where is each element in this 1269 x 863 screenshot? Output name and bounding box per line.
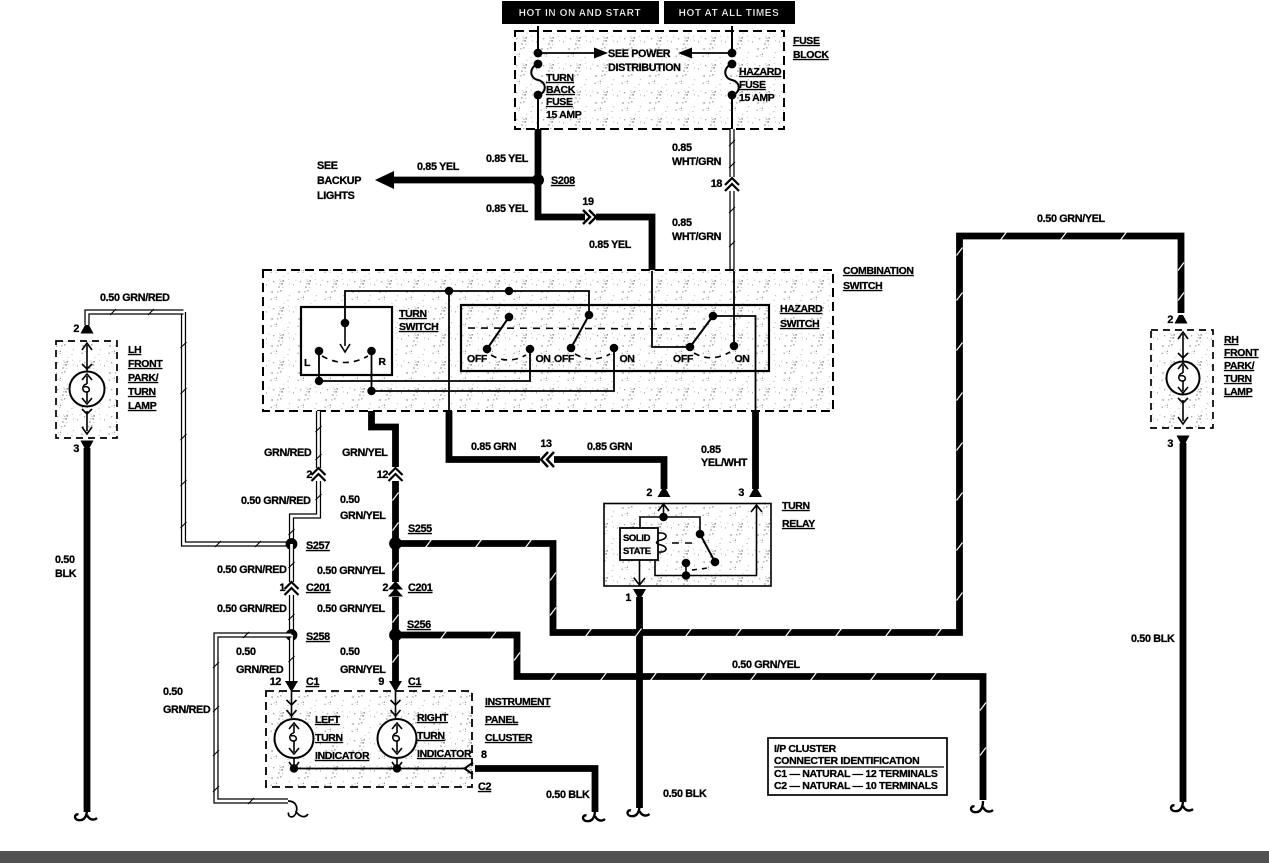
svg-text:9: 9 [378,676,384,688]
label HAZARD SWITCH [780,303,823,330]
wire 0.50 GRN/RED connector 2 to S257 (hollow) [289,481,322,544]
wire 0.85 YEL connector 19 to combination switch [596,217,652,271]
label L [304,357,311,369]
arrow into cluster GRN/YEL [389,681,402,692]
hazard mechanical dashed link [468,328,700,329]
svg-text:C2 — NATURAL — 10 TERMINALS: C2 — NATURAL — 10 TERMINALS [774,780,938,792]
wire end hook relay ground [628,805,650,816]
wire 0.85 YEL to pole3 OFF inside switch [652,271,690,347]
svg-text:12: 12 [270,676,282,688]
svg-text:0.50 GRN/RED: 0.50 GRN/RED [241,495,311,507]
node on right fuse wire (top) [728,49,737,58]
label 0.50 GRN/YEL (above C201) [317,565,386,577]
svg-text:FRONT: FRONT [128,358,163,370]
label LH FRONT PARK TURN LAMP [128,344,163,412]
svg-text:WHT/GRN: WHT/GRN [672,231,722,243]
svg-text:3: 3 [738,487,744,499]
svg-text:INDICATOR: INDICATOR [417,748,472,760]
relay fixed contact [682,559,691,580]
label C201 (GRN/RED) [306,582,331,594]
wire turn switch L to pole1 ON [319,349,530,381]
wire 0.50 GRN/RED S257 to connector C201 (hollow) [289,544,295,582]
svg-text:YEL/WHT: YEL/WHT [701,457,748,469]
connector 19 chevrons [583,210,596,224]
turn switch contact L [315,347,324,356]
wire below hazard fuse inside box [731,95,733,129]
svg-text:13: 13 [540,438,552,450]
svg-text:SEE POWER: SEE POWER [608,48,671,60]
left turn indicator bulb [275,691,314,769]
wire end hook LH ground [75,809,97,820]
svg-text:19: 19 [582,196,594,208]
hazard pole 2 [567,311,619,359]
svg-text:2: 2 [306,469,312,481]
node on right fuse wire (second) [728,60,737,69]
svg-text:0.85 YEL: 0.85 YEL [486,153,529,165]
svg-text:LH: LH [128,344,141,356]
wire 0.85 GRN switch output to connector 13 [449,411,540,460]
label 3 (LH lamp) [73,443,79,455]
terminal flare RH lamp pin 3 [1177,436,1190,445]
right turn indicator bulb [378,691,417,769]
label HAZARD FUSE 15 AMP [739,66,782,104]
wire 0.50 BLK RH lamp to ground [1180,443,1187,802]
LH lamp bulb [70,343,105,434]
label pin 2 turn relay [646,487,652,499]
svg-text:OFF: OFF [673,353,694,365]
label 0.50 GRN/RED (above C1) [236,646,284,676]
node S208 [532,174,544,186]
wire 0.85 WHT/GRN to pole3 ON inside switch [733,271,735,346]
svg-text:0.85 YEL: 0.85 YEL [417,161,460,173]
label pin 3 turn relay [738,487,744,499]
hazard pole 1 [483,313,535,360]
wire 0.50 GRN/RED S258 left branch to bottom (hollow) [213,632,292,804]
combination switch dashed box [263,270,833,411]
hazard switch box [461,305,769,371]
svg-text:8: 8 [481,749,487,761]
wire end hook cluster ground [583,810,605,821]
svg-text:0.50 GRN/YEL: 0.50 GRN/YEL [317,565,386,577]
label S255 [408,523,432,535]
svg-text:DISTRIBUTION: DISTRIBUTION [608,62,681,74]
terminal flare RH lamp pin 2 [1175,315,1188,324]
label TURN RELAY [782,500,815,530]
wire 0.85 WHT/GRN connector 18 to combination switch (hollow) [729,191,735,271]
svg-text:PANEL: PANEL [485,714,519,726]
svg-text:FUSE: FUSE [546,96,573,108]
I/P cluster connector identification box [768,738,947,795]
wire 0.50 GRN/YEL S255 to RH lamp [396,232,1185,637]
turn switch pivot and wiper arrow [340,319,350,352]
wire 0.85 GRN connector 13 to turn relay pin 2 [554,460,664,490]
svg-text:2: 2 [382,582,388,594]
label 0.50 GRN/YEL (above S255) [340,494,386,522]
wire 0.50 GRN/YEL S256 to instrument cluster [393,635,399,681]
label S257 [306,540,330,552]
svg-text:0.50 BLK: 0.50 BLK [663,788,707,800]
label 0.50 BLK (LH) [55,554,77,580]
node left indicator ground [290,764,298,772]
svg-text:S257: S257 [306,540,330,552]
svg-text:GRN/YEL: GRN/YEL [340,664,386,676]
relay pin 3 internal arrow [751,505,762,512]
svg-text:PARK/: PARK/ [1224,360,1255,372]
arrow SEE BACKUP LIGHTS [375,171,538,189]
svg-text:C2: C2 [478,781,491,793]
svg-text:HOT AT ALL TIMES: HOT AT ALL TIMES [679,8,780,19]
wire 0.50 GRN/YEL connector 12 to S255 [393,481,399,543]
wire top bus inside combination switch [345,291,589,323]
svg-text:INDICATOR: INDICATOR [315,750,370,762]
label ON pole3 [734,353,749,365]
label 0.50 GRN/RED (above S258) [217,603,287,615]
terminal flare relay pin 3 [749,489,762,497]
svg-text:LAMP: LAMP [128,400,157,412]
svg-text:0.85 YEL: 0.85 YEL [589,239,632,251]
splice S257 [286,538,298,550]
wire 0.50 GRN/RED S258 to instrument cluster (hollow) [289,635,295,681]
label 0.85 YEL (above combination switch) [589,239,632,251]
label CONNECTER IDENTIFICATION [774,755,944,767]
hazard pole 3 [686,312,739,358]
svg-text:OFF: OFF [467,353,488,365]
label SEE POWER DISTRIBUTION [608,48,681,74]
svg-text:3: 3 [1167,438,1173,450]
svg-text:GRN/RED: GRN/RED [264,447,312,459]
svg-text:C1 — NATURAL — 12 TERMINALS: C1 — NATURAL — 12 TERMINALS [774,768,938,780]
wire GRN/RED turn switch L to connector 2 (hollow) [316,411,322,468]
svg-text:LIGHTS: LIGHTS [317,190,355,202]
label OFF pole1 [467,353,488,365]
label SEE BACKUP LIGHTS [317,160,361,202]
arrow into cluster GRN/RED [285,681,298,692]
svg-text:2: 2 [73,323,79,335]
wire pole3 pivot to YEL/WHT output [713,316,756,411]
svg-text:S255: S255 [408,523,432,535]
svg-text:TURN: TURN [128,386,156,398]
header box HOT AT ALL TIMES [664,1,795,24]
turn relay box [604,504,771,587]
svg-text:CLUSTER: CLUSTER [485,732,533,744]
svg-text:0.85 YEL: 0.85 YEL [486,203,529,215]
svg-text:RIGHT: RIGHT [417,712,449,724]
svg-text:TURN: TURN [399,308,427,320]
label 12 (GRN/YEL connector) [377,469,389,481]
relay coil [657,533,667,552]
LH lamp dashed box [56,341,117,438]
wire end hook GRN/YEL branch [971,801,993,812]
label 0.85 WHT/GRN (upper) [672,142,722,168]
svg-text:GRN/YEL: GRN/YEL [340,510,386,522]
label 12 (C1) [270,676,282,688]
svg-text:GRN/YEL: GRN/YEL [342,447,388,459]
label C1 (GRN/RED) [306,676,319,688]
svg-text:GRN/RED: GRN/RED [163,704,211,716]
label 0.85 WHT/GRN (lower) [672,217,722,243]
label FUSE BLOCK [793,35,829,61]
svg-text:2: 2 [1167,314,1173,326]
svg-text:0.50 GRN/YEL: 0.50 GRN/YEL [317,603,386,615]
svg-text:I/P CLUSTER: I/P CLUSTER [774,743,837,755]
arrow SEE POWER DISTRIBUTION (right) [678,48,732,59]
node bus tap for 0.85 GRN output [445,287,453,295]
relay contact dashed arc [692,568,708,570]
wire turn switch R to pole2 ON [372,348,615,391]
svg-text:SWITCH: SWITCH [843,280,882,292]
svg-text:TURN: TURN [417,730,445,742]
label 0.85 YEL (below S208) [486,203,529,215]
svg-text:0.50 GRN/RED: 0.50 GRN/RED [217,564,287,576]
svg-text:FUSE: FUSE [793,35,820,47]
wire 0.85 YEL/WHT switch to relay pin 3 [752,411,759,489]
label C2 NATURAL 10 TERMINALS [774,780,938,792]
svg-text:BACK: BACK [546,84,576,96]
node on left fuse wire (second) [534,60,543,69]
label R [378,356,386,368]
svg-text:PARK/: PARK/ [128,372,159,384]
wire cluster internal ground bus [294,768,467,770]
relay coil to armature dashed link [672,542,697,544]
svg-text:18: 18 [711,178,723,190]
label TURN BACK FUSE 15 AMP [546,72,582,121]
label 0.85 YEL (on backup arrow) [417,161,460,173]
svg-text:SEE: SEE [317,160,338,172]
svg-text:SOLID: SOLID [623,533,651,544]
label S258 [306,631,330,643]
terminal flare relay pin 2 [658,489,671,497]
label pin 1 turn relay [625,592,631,604]
svg-text:12: 12 [377,469,389,481]
svg-text:0.50: 0.50 [340,494,360,506]
svg-text:FUSE: FUSE [739,79,766,91]
svg-text:WHT/GRN: WHT/GRN [672,156,722,168]
wire 0.50 BLK relay pin 1 to ground splice [636,597,643,808]
svg-text:0.50 GRN/RED: 0.50 GRN/RED [100,292,170,304]
wire below turn back fuse inside box [537,95,539,129]
svg-text:RH: RH [1224,334,1238,346]
svg-text:TURN: TURN [315,732,343,744]
relay armature [696,530,720,567]
svg-text:HOT IN ON AND START: HOT IN ON AND START [519,8,642,19]
connector 18 chevrons [725,178,739,191]
label 0.50 GRN/RED (above C201) [217,564,287,576]
label 0.50 BLK (relay ground) [663,788,707,800]
node on left fuse wire (top) [534,49,543,58]
relay internal wire contact to pin 3 [655,505,757,576]
relay pin 1 internal wire and arrow [634,560,645,586]
label RIGHT TURN INDICATOR [417,712,472,760]
label OFF pole2 [554,353,575,365]
svg-text:HAZARD: HAZARD [739,66,782,78]
wire GRN/YEL turn switch R to connector 12 [372,411,396,467]
node bus tap for hazard pole 1 [505,287,513,295]
label I/P CLUSTER [774,743,837,755]
terminal flare relay pin 1 [633,589,646,597]
label 0.85 YEL (above S208) [486,153,529,165]
svg-text:RELAY: RELAY [782,518,815,530]
wire 0.85 GRN output inside switch [448,291,450,411]
connector 2 chevrons GRN/RED [312,468,326,481]
label INSTRUMENT PANEL CLUSTER [485,696,551,744]
svg-text:OFF: OFF [554,353,575,365]
wire from HOT AT ALL TIMES into fuse block [731,26,733,53]
svg-text:S256: S256 [407,619,431,631]
splice S256 [389,629,402,642]
svg-text:0.50: 0.50 [163,686,183,698]
svg-text:C201: C201 [306,582,331,594]
wire 0.50 BLK cluster pin 8 to ground [475,769,595,813]
wire from HOT IN ON AND START into fuse block [537,26,539,53]
label 0.85 GRN (right) [587,441,633,453]
turn switch box [301,307,392,375]
svg-text:0.85: 0.85 [701,444,721,456]
label 2 (LH lamp) [73,323,79,335]
relay pin 2 internal arrow and node [658,504,669,522]
label 18 [711,178,723,190]
label 2 (C201 GRN/YEL) [382,582,388,594]
label C201 (GRN/YEL) [408,582,433,594]
wire 0.50 GRN/RED C201 to S258 (hollow) [289,595,295,635]
svg-text:STATE: STATE [623,546,651,557]
svg-text:0.50 GRN/YEL: 0.50 GRN/YEL [732,659,801,671]
label C2 [478,781,491,793]
label S208 [551,175,575,187]
svg-text:COMBINATION: COMBINATION [843,265,914,277]
bottom gray bar [0,851,1269,863]
svg-text:S208: S208 [551,175,575,187]
label 0.50 GRN/YEL (top right) [1037,213,1106,225]
wire 0.85 YEL S208 down and right to connector 19 [538,180,585,217]
wire 0.50 GRN/RED LH lamp top (hollow) [87,309,184,325]
fuse TURN BACK FUSE 15 AMP [531,64,545,99]
label 0.50 GRN/YEL (above C1) [340,646,386,676]
label C1 (GRN/YEL) [408,676,421,688]
svg-text:0.50 BLK: 0.50 BLK [1131,633,1175,645]
label 13 [540,438,552,450]
wire 0.50 GRN/YEL C201 to S256 [393,597,399,635]
svg-text:C201: C201 [408,582,433,594]
label LEFT TURN INDICATOR [315,714,370,762]
svg-text:0.50 GRN/RED: 0.50 GRN/RED [217,603,287,615]
svg-text:0.85: 0.85 [672,217,692,229]
label 0.50 GRN/YEL (above S256) [317,603,386,615]
svg-text:15 AMP: 15 AMP [739,92,775,104]
RH lamp dashed box [1151,330,1213,428]
wire 0.50 GRN/YEL S255 to C201 [393,544,399,583]
svg-text:0.85 GRN: 0.85 GRN [587,441,633,453]
svg-text:TURN: TURN [546,72,574,84]
wire 0.50 BLK LH lamp to ground [84,448,91,812]
label GRN/RED [264,447,312,459]
svg-text:FRONT: FRONT [1224,347,1259,359]
svg-text:C1: C1 [408,676,421,688]
connector 13 chevrons [541,452,554,467]
svg-text:BLK: BLK [55,568,77,580]
svg-text:TURN: TURN [1224,373,1252,385]
label 0.50 BLK (RH) [1131,633,1175,645]
label ON pole1 [535,353,550,365]
svg-text:2: 2 [646,487,652,499]
label 0.50 BLK (cluster) [546,789,590,801]
label ON pole2 [619,353,634,365]
label 0.50 GRN/YEL (lower right) [732,659,801,671]
svg-text:GRN/RED: GRN/RED [236,664,284,676]
label GRN/YEL [342,447,388,459]
label OFF pole3 [673,353,694,365]
header box HOT IN ON AND START [502,1,659,24]
label 1 (C201) [279,582,285,594]
label COMBINATION SWITCH [843,265,914,292]
wire 0.85 WHT/GRN fuse block to connector 18 (hollow) [729,129,735,177]
connector 12 chevrons GRN/YEL [389,468,403,481]
terminal flare LH lamp pin 2 [81,325,94,334]
fuse block dashed box [515,31,784,129]
svg-text:HAZARD: HAZARD [780,303,823,315]
wire end hook RH ground [1171,800,1193,811]
turn switch contact R [367,347,376,356]
label 8 [481,749,487,761]
node L branch [315,377,323,385]
svg-text:0.85 GRN: 0.85 GRN [471,441,517,453]
RH lamp bulb [1167,332,1200,424]
label 3 (RH lamp) [1167,438,1173,450]
label 2 (RH lamp) [1167,314,1173,326]
label C1 NATURAL 12 TERMINALS [774,768,938,780]
svg-text:1: 1 [625,592,631,604]
svg-text:0.50 GRN/YEL: 0.50 GRN/YEL [1037,213,1106,225]
svg-text:ON: ON [535,353,550,365]
svg-text:SWITCH: SWITCH [399,321,438,333]
wire end hook GRN/RED branch [288,801,308,817]
connector C201 chevrons GRN/YEL [388,581,403,597]
svg-text:BACKUP: BACKUP [317,175,361,187]
arrow SEE POWER DISTRIBUTION (left) [538,48,608,59]
svg-text:0.50 BLK: 0.50 BLK [546,789,590,801]
connector C201 chevrons GRN/RED [285,582,299,595]
fuse HAZARD FUSE 15 AMP [725,64,739,99]
svg-text:0.50: 0.50 [55,554,75,566]
label 0.50 GRN/RED (bottom branch) [163,686,211,716]
svg-text:CONNECTER IDENTIFICATION: CONNECTER IDENTIFICATION [774,755,919,767]
label 0.85 GRN (left) [471,441,517,453]
node right indicator ground [393,764,401,772]
wire 0.50 GRN/YEL S256 right branch to bottom [396,631,987,800]
relay internal wire pin2 to coil and armature [640,517,700,534]
label 0.50 GRN/RED (above S257) [241,495,311,507]
svg-text:ON: ON [734,353,749,365]
label 2 (GRN/RED connector) [306,469,312,481]
svg-text:S258: S258 [306,631,330,643]
wire 0.85 YEL fuse block to S208 [535,129,542,180]
splice S258 [286,629,298,641]
turn switch dashed arc [322,356,368,363]
label 0.85 YEL/WHT [701,444,748,469]
node R branch [367,387,375,395]
svg-text:LAMP: LAMP [1224,386,1253,398]
svg-text:ON: ON [619,353,634,365]
svg-text:R: R [378,356,386,368]
svg-text:0.50: 0.50 [340,646,360,658]
splice S255 [389,537,402,550]
label RH FRONT PARK TURN LAMP [1224,334,1259,398]
label 19 [582,196,594,208]
svg-text:L: L [304,357,311,369]
label 0.50 GRN/RED (LH lamp) [100,292,170,304]
label S256 [407,619,431,631]
wire 0.50 GRN/RED from LH lamp to S257 (hollow) [181,312,292,547]
svg-text:BLOCK: BLOCK [793,49,829,61]
